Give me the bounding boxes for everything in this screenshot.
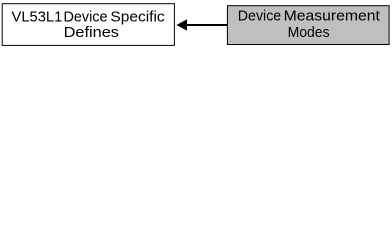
svg-text:Defines: Defines bbox=[64, 25, 119, 41]
svg-text:Modes: Modes bbox=[288, 25, 330, 41]
svg-text:Device: Device bbox=[238, 9, 281, 25]
svg-text:Device: Device bbox=[64, 10, 108, 26]
svg-text:VL53L1: VL53L1 bbox=[12, 10, 63, 26]
svg-text:Specific: Specific bbox=[110, 10, 164, 26]
svg-text:Measurement: Measurement bbox=[284, 9, 380, 25]
